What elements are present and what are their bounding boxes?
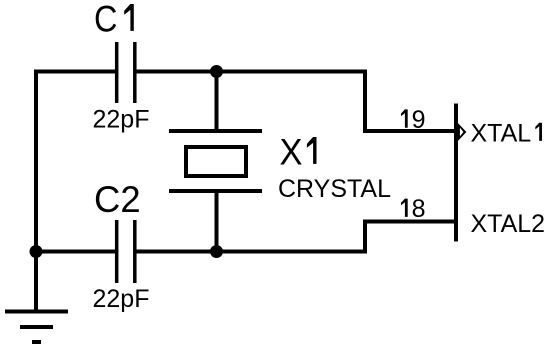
crystal X1 [169,131,262,191]
chip edge (microcontroller boundary) [454,104,458,242]
ground [5,252,68,343]
svg-text:XTAL: XTAL [471,120,532,148]
svg-text:C2: C2 [94,179,141,220]
wire top horizontal left segment [34,70,115,74]
node junction bottom [210,245,223,258]
label X1 [280,132,317,173]
capacitor C2 [117,220,135,283]
capacitor C1 [117,42,135,103]
wire crystal top [215,72,219,132]
svg-text:8: 8 [412,195,426,223]
node junction left [30,245,43,258]
svg-text:22pF: 22pF [93,285,150,313]
wire bottom horizontal right segment to chip [137,222,455,252]
svg-text:9: 9 [412,106,426,134]
wire bottom horizontal left segment [36,250,115,254]
svg-text:C: C [94,0,117,40]
wire top horizontal right segment to chip [137,72,455,132]
wire left vertical [34,70,38,252]
label C1 [94,0,134,40]
svg-text:X: X [280,132,303,173]
svg-text:22pF: 22pF [93,105,150,133]
node junction top [210,65,223,78]
pin 19 arrowhead [457,123,466,142]
wire crystal bottom [215,191,219,252]
svg-text:CRYSTAL: CRYSTAL [278,175,391,203]
svg-text:XTAL2: XTAL2 [471,210,546,238]
pin name XTAL1 [471,120,543,148]
pin number 19 [401,106,426,134]
pin number 18 [401,195,426,223]
